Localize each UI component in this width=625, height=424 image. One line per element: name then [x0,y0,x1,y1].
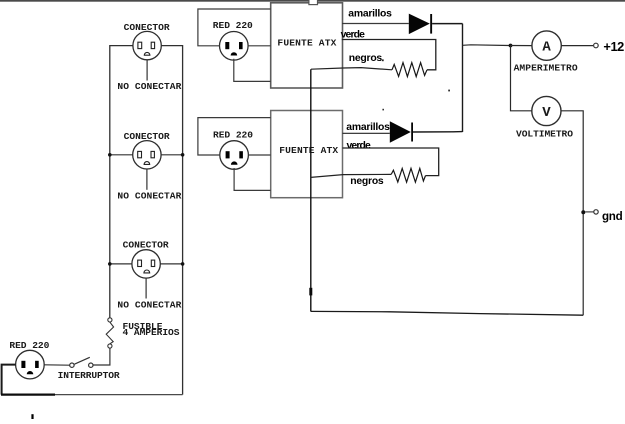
wire fuse to switch [93,348,110,365]
wire junction to ammeter [511,45,532,47]
wire U2 amarillos to diode D2 [343,132,390,134]
wire U2 negros to R2 from series link [311,174,391,177]
svg-text:verde: verde [347,140,372,151]
svg-text:INTERRUPTOR: INTERRUPTOR [58,370,120,381]
junction blob on series link [309,288,312,296]
right rail wire [161,46,182,395]
junction dots row J2 [108,153,184,157]
svg-text:amarillos: amarillos [348,9,392,20]
U2 negros label [350,176,384,187]
svg-text:NO CONECTAR: NO CONECTAR [117,81,181,92]
wire P3 to switch [44,364,69,366]
fuse F1 FUSIBLE 4 AMPERIOS [106,318,180,348]
svg-text:AMPERIMETRO: AMPERIMETRO [514,63,578,74]
U2 output amarillos label [346,122,390,133]
svg-text:FUENTE ATX: FUENTE ATX [277,38,336,49]
svg-text:negros: negros [349,53,383,64]
junction node dot A [509,44,513,48]
U2 verde label [347,140,372,151]
diode D1 [409,14,432,34]
resistor R2 [391,168,425,182]
outlet J1 CONECTOR (top) [117,22,181,92]
wire rail tap to ammeter junction [463,44,511,47]
junction dots row J3 [108,262,184,266]
wire U1 amarillos to diode D1 [342,23,409,25]
wire D2 to right rail [413,131,463,133]
wire junction down to voltmeter [511,46,532,111]
stray dot above amarillos2 [382,109,384,111]
svg-text:FUENTE ATX: FUENTE ATX [279,145,338,156]
wire U2 verde to resistor R2 [343,148,439,176]
ammeter M1 [514,31,578,74]
U1 negros label [349,53,384,64]
wire U1 verde to resistor R1 [342,40,436,70]
wire bottom return (series link to gnd rail) [311,311,583,315]
U1 verde label [341,29,366,40]
wire voltmeter to gnd rail [561,111,583,315]
U1 output amarillos label [348,9,392,20]
svg-text:RED 220: RED 220 [213,20,253,31]
voltmeter M2 [516,96,573,139]
resistor R1 [392,63,427,77]
svg-text:CONECTOR: CONECTOR [123,240,169,251]
svg-text:amarillos: amarillos [346,122,390,133]
svg-text:NO CONECTAR: NO CONECTAR [117,300,181,311]
svg-text:RED 220: RED 220 [9,340,49,351]
left rail wire [110,46,133,318]
wire P3 left down to bottom rail [2,365,16,395]
junction node dot gnd [581,210,585,214]
svg-text:A: A [542,40,551,56]
connector tab on top of U1 [309,0,318,5]
terminal +12 [594,39,625,54]
diode D2 [390,121,413,142]
stray tick mark bottom [31,414,33,419]
wire U1 negros to R1 and down-junction [311,68,392,70]
svg-text:V: V [542,105,551,121]
svg-text:4 AMPERIOS: 4 AMPERIOS [123,327,180,338]
switch S1 INTERRUPTOR [58,357,120,381]
svg-text:+12: +12 [603,39,624,54]
wire series link negros U1 to U2 (vertical through U2) [310,69,312,311]
outlet J2 CONECTOR (middle) [110,131,183,201]
wire P2 loop to U2 [198,118,271,191]
bottom rail wire [1,394,183,396]
wire ammeter to +12 terminal [561,45,593,47]
wire P1 loop to U1 [198,9,271,81]
svg-text:verde: verde [341,29,366,40]
terminal gnd [585,210,622,223]
mains outlet P2 RED 220 (middle) [213,129,253,169]
mains outlet P3 RED 220 (bottom left) [9,340,49,379]
right collector rail wire (x=462.5) [462,24,464,132]
top border line [0,0,625,2]
svg-text:NO CONECTAR: NO CONECTAR [117,190,181,201]
svg-text:negros: negros [350,176,384,187]
power supply U1 box FUENTE ATX [271,3,343,88]
svg-text:gnd: gnd [602,210,623,223]
mains outlet P1 RED 220 (top) [213,20,253,60]
outlet J3 CONECTOR (bottom) [110,240,183,311]
stray dot near rail [448,90,450,92]
power supply U2 box FUENTE ATX [271,111,343,198]
wire D1 to right rail [432,23,462,25]
svg-text:VOLTIMETRO: VOLTIMETRO [516,129,573,140]
svg-text:RED 220: RED 220 [213,129,253,140]
